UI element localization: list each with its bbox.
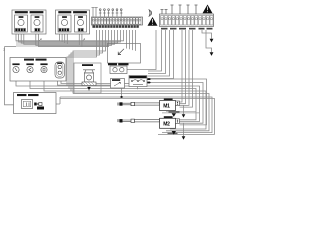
svg-text:M2: M2 [163,121,170,127]
svg-text:M1: M1 [163,104,170,110]
